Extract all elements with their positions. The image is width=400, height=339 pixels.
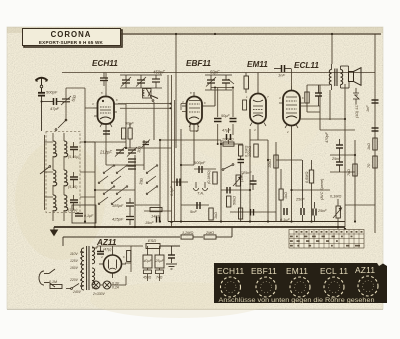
capacitor grid ECH <box>100 73 108 87</box>
paper page <box>7 27 383 309</box>
capacitor 47µF det <box>227 134 231 140</box>
svg-text:T.A.: T.A. <box>197 191 204 196</box>
wire second rail <box>62 72 375 74</box>
coil L5 <box>64 170 68 186</box>
svg-text:100kΩ: 100kΩ <box>248 146 252 157</box>
electrolytic 25µF <box>155 246 164 268</box>
wire rectifier output <box>113 246 144 272</box>
tube EM11 <box>250 89 266 129</box>
svg-text:(0,3MΩ): (0,3MΩ) <box>207 169 211 184</box>
title box <box>23 29 121 46</box>
electrolytic 40µF <box>143 246 152 268</box>
capacitor 5nF <box>181 202 200 209</box>
svg-text:220V: 220V <box>69 278 79 282</box>
svg-text:1kΩ: 1kΩ <box>367 143 371 150</box>
tube ECH11 pin wires <box>85 73 126 149</box>
capacitor 15nF <box>157 217 160 223</box>
wire ECL top feed <box>292 69 331 113</box>
mains switch <box>66 284 79 290</box>
svg-text:5nF: 5nF <box>190 209 197 214</box>
svg-text:25nF: 25nF <box>295 198 305 202</box>
resistor 50kΩ vertical <box>227 196 231 207</box>
wire mid verticals <box>85 34 375 233</box>
capacitor 0,1µF coupling <box>172 179 181 187</box>
capacitor output PSU <box>168 246 175 263</box>
black connection panel <box>214 263 387 303</box>
svg-text:2: 2 <box>286 130 289 134</box>
svg-text:(AVC Sperre): (AVC Sperre) <box>320 179 324 200</box>
svg-text:2×330V: 2×330V <box>92 292 106 296</box>
svg-text:ECL11: ECL11 <box>294 61 319 70</box>
junction dots det <box>214 87 234 146</box>
svg-text:200kΩ: 200kΩ <box>221 137 234 142</box>
svg-text:EBF11: EBF11 <box>251 266 277 276</box>
capacitor 500pF det <box>199 166 202 173</box>
oscillator coil box <box>143 89 159 99</box>
svg-text:40µF: 40µF <box>144 259 153 263</box>
svg-text:1kΩ: 1kΩ <box>284 192 288 199</box>
ground symbol left <box>51 227 58 236</box>
capacitor tuning pad 1 <box>70 147 78 150</box>
capacitor 50µF det <box>214 119 222 122</box>
resistor 200kΩ horizontal <box>223 142 234 146</box>
svg-text:1,2MΩ: 1,2MΩ <box>182 231 193 235</box>
paper stains <box>15 140 105 260</box>
ground T PSU <box>166 264 177 269</box>
svg-text:240V: 240V <box>72 290 82 294</box>
capacitor 1nF before ECL <box>274 65 291 72</box>
svg-text:500pF: 500pF <box>46 90 58 95</box>
capacitor 425pF <box>126 211 134 225</box>
svg-text:50pF: 50pF <box>125 122 134 126</box>
svg-text:ECH11: ECH11 <box>217 266 245 276</box>
resistor smoothing <box>127 251 131 262</box>
svg-text:47µF: 47µF <box>222 129 231 133</box>
trimmer small mid <box>142 140 151 148</box>
resistor 1kΩ vertical <box>209 208 213 220</box>
resistor 0,3MΩ vertical <box>213 172 217 184</box>
power bus with dropper resistors <box>63 227 232 246</box>
svg-text:ECL 11: ECL 11 <box>320 266 348 276</box>
svg-text:(4Ω) 417: (4Ω) 417 <box>355 103 359 118</box>
capacitor tuning pad 2 <box>70 177 78 180</box>
svg-text:ECH11: ECH11 <box>92 59 118 68</box>
svg-text:500pF: 500pF <box>194 160 206 165</box>
svg-text:(47µ): (47µ) <box>103 248 111 252</box>
wire transformer top to bus <box>92 246 131 288</box>
svg-text:EM11: EM11 <box>286 266 308 276</box>
wire gang link double <box>168 75 172 227</box>
capacitor 47pF <box>42 98 63 105</box>
wire EBF grid stubs <box>175 100 199 222</box>
svg-text:110V: 110V <box>70 252 78 256</box>
svg-text:25nF: 25nF <box>331 157 341 161</box>
svg-text:25nF: 25nF <box>317 209 327 213</box>
shield box 0,1µF <box>72 205 96 223</box>
junction dots bus <box>84 33 356 228</box>
tube EBF11 <box>182 92 206 129</box>
panel socket EM11 <box>290 277 310 297</box>
wire coil verticals <box>53 133 74 221</box>
svg-text:50kΩ: 50kΩ <box>233 196 237 205</box>
junction dots ECH links <box>170 103 172 110</box>
variable capacitor 212pF <box>115 147 125 157</box>
potentiometer tone 0,1MΩ <box>333 199 342 229</box>
svg-text:25µF: 25µF <box>155 259 165 263</box>
wire ECH right links <box>118 104 171 109</box>
transformer tap dots <box>80 251 82 287</box>
resistor 10kΩ <box>274 155 278 168</box>
svg-text:385pF: 385pF <box>112 203 124 208</box>
capacitor ECL cathode 50nF <box>315 85 322 106</box>
coil L6 <box>64 195 68 211</box>
svg-text:1nF: 1nF <box>278 73 285 78</box>
capacitor ECH cathode <box>103 124 110 134</box>
capacitor bottom cluster <box>251 209 254 216</box>
svg-text:450pF: 450pF <box>153 70 165 75</box>
capacitor 25nF AVC <box>250 175 257 190</box>
capacitor tuning pad 3 <box>70 200 78 203</box>
resistor right column b <box>373 156 377 168</box>
mains transformer <box>81 246 94 290</box>
rectifier tube AZ11 <box>99 250 126 278</box>
external speaker jacks <box>353 88 359 104</box>
coil L1 <box>53 133 57 157</box>
resistor mid b <box>279 169 283 222</box>
capacitor right column b <box>372 128 379 131</box>
svg-text:2: 2 <box>107 129 110 133</box>
coil L4 <box>64 141 68 157</box>
resistor ECL grid <box>309 160 313 222</box>
svg-text:0,1MΩ: 0,1MΩ <box>330 195 341 199</box>
capacitor 5nF b <box>227 187 230 194</box>
svg-text:1nF: 1nF <box>366 105 370 112</box>
svg-text:150V: 150V <box>70 266 79 270</box>
capacitor 0,1µF b <box>284 208 287 215</box>
svg-text:0,1µF: 0,1µF <box>84 214 94 218</box>
capacitor 50µF reservoir <box>97 246 104 254</box>
capacitor 25nF d <box>313 202 316 222</box>
switch tone <box>222 164 234 171</box>
resistor ECL cathode <box>305 85 309 112</box>
tube ECH11 <box>93 92 118 129</box>
paper top shade <box>7 27 383 33</box>
svg-text:15nF: 15nF <box>145 221 154 225</box>
panel socket ECL11 <box>324 277 344 297</box>
EBF trimmer cluster 50pF <box>205 75 234 90</box>
wire left horizontals <box>45 142 96 197</box>
ground bus upper <box>168 221 345 223</box>
panel socket ECH11 <box>221 277 241 297</box>
band switch contact <box>55 119 67 130</box>
capacitor antenna series 500pF <box>38 93 45 131</box>
switch contacts wave band 1 <box>103 165 158 195</box>
svg-text:50pF: 50pF <box>210 70 220 75</box>
capacitor padder stack <box>128 159 136 169</box>
svg-text:125V: 125V <box>70 259 79 263</box>
coil L2 <box>53 170 57 186</box>
output transformer <box>329 64 342 90</box>
resistor 14kΩ <box>150 208 162 212</box>
resistor 100kΩ mid-right <box>254 144 258 157</box>
svg-text:10kΩ: 10kΩ <box>268 159 272 168</box>
variable capacitor osc gang <box>127 147 137 157</box>
svg-text:EXPORT-SUPER 9 H 65 WK: EXPORT-SUPER 9 H 65 WK <box>39 40 104 45</box>
svg-text:212pF: 212pF <box>99 150 112 155</box>
wire PSU bottoms <box>131 268 160 281</box>
svg-text:EBF11: EBF11 <box>186 59 211 68</box>
svg-text:2MΩ: 2MΩ <box>205 231 214 235</box>
svg-text:(5,36): (5,36) <box>68 185 77 189</box>
paper grain <box>7 27 383 309</box>
potentiometer volume <box>233 175 241 186</box>
svg-text:0,6MΩ: 0,6MΩ <box>305 172 309 183</box>
resistor pair ECH cathode <box>122 123 133 148</box>
resistor 0,1M mains <box>44 285 62 289</box>
svg-text:Anschlüsse von unten gegen die: Anschlüsse von unten gegen die Röhre ges… <box>219 298 375 304</box>
junction antenna <box>41 101 43 103</box>
svg-text:0,1µF: 0,1µF <box>170 186 174 196</box>
resistor 0,1MΩ vertical right <box>239 145 243 156</box>
capacitor 25nF top <box>336 139 343 155</box>
panel socket EBF11 <box>256 277 276 297</box>
oscillator trimmer cluster 450pF <box>120 75 162 88</box>
svg-text:7kΩ: 7kΩ <box>347 169 351 176</box>
field coil ESD <box>146 244 180 249</box>
antenna <box>36 78 48 92</box>
svg-text:0,1M: 0,1M <box>49 280 57 284</box>
svg-text:2: 2 <box>195 129 198 133</box>
speaker <box>341 66 362 88</box>
svg-text:25nF: 25nF <box>242 171 252 175</box>
capacitor det b <box>230 119 237 122</box>
svg-text:AZ11: AZ11 <box>355 265 375 275</box>
panel socket AZ11 <box>358 276 378 296</box>
svg-text:CORONA: CORONA <box>51 30 92 39</box>
switch contacts extra field <box>98 176 156 205</box>
capacitor 50nF right <box>336 155 343 172</box>
wire antenna branch <box>66 88 85 120</box>
capacitor right column <box>372 100 379 103</box>
svg-text:(1,3µ): (1,3µ) <box>68 208 77 212</box>
wire top HT rail <box>121 33 381 35</box>
coil box dashed <box>46 132 80 213</box>
resistor bottom cluster <box>239 208 243 219</box>
svg-text:425pF: 425pF <box>112 217 124 222</box>
resistor right column a <box>373 138 377 150</box>
svg-text:0,2A: 0,2A <box>112 286 120 290</box>
pilot lamp 2 <box>103 281 111 289</box>
capacitor 385pF <box>126 198 134 211</box>
mains plug <box>39 269 55 287</box>
detector network verticals <box>211 88 233 145</box>
resistor 74Ω <box>156 270 164 274</box>
tube ECL11 <box>279 86 304 131</box>
svg-text:470pF: 470pF <box>325 132 329 143</box>
svg-text:EM11: EM11 <box>247 60 268 69</box>
band switch arm <box>40 166 51 175</box>
coil L3 <box>53 195 57 211</box>
resistor 450Ω <box>144 270 152 274</box>
svg-text:0,1µF: 0,1µF <box>280 218 290 222</box>
title box shadow <box>24 30 122 47</box>
capacitor 25nF c <box>301 160 304 222</box>
pilot lamp 1 <box>92 281 100 289</box>
resistor 7kΩ <box>353 164 357 176</box>
svg-text:50µF: 50µF <box>221 114 230 118</box>
tube pin numbers <box>92 91 304 284</box>
ground bus main <box>54 226 345 228</box>
wire mid horizontals <box>85 106 375 212</box>
capacitor AVC a <box>238 156 245 222</box>
phono terminals T.A. <box>194 182 208 191</box>
voltage table <box>289 230 364 249</box>
trimmer capacitor 500 <box>61 96 71 105</box>
svg-text:47pF: 47pF <box>50 106 60 111</box>
oscillator switch <box>146 88 154 108</box>
wire coil rail <box>44 135 46 210</box>
resistor EBF screen <box>244 73 249 94</box>
svg-text:ESD: ESD <box>148 238 156 243</box>
resistor EM grid small <box>243 100 247 110</box>
wire heater row <box>92 276 126 285</box>
svg-text:1kΩ: 1kΩ <box>214 212 218 219</box>
